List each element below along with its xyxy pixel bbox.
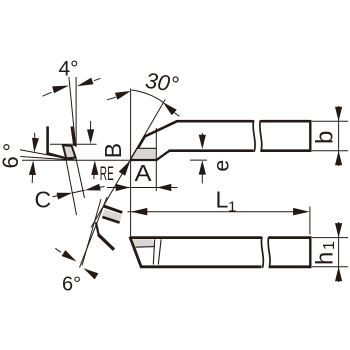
top view: shank bottom edge (left piece to break): [169, 149, 254, 152]
B up arrowhead: [91, 160, 98, 175]
b down arrowhead: [335, 107, 342, 122]
aux guide line 1: [80, 197, 108, 268]
aux guide line 2: [82, 199, 101, 266]
B down arrowhead: [87, 129, 94, 144]
front view: insert (gray, outlined): [63, 145, 76, 158]
bottom 6-deg left arrowhead: [62, 250, 77, 261]
L1 right extension line: [309, 207, 311, 235]
4-deg left arrowhead: [52, 86, 69, 94]
side view: left slanted edge: [130, 237, 141, 267]
top view: head-to-shank bottom chamfer: [156, 151, 169, 161]
30-deg arc right arrowhead: [163, 102, 177, 115]
C right tail dash: [99, 187, 105, 188]
aux detail: near-vertical bar: [96, 222, 99, 235]
30-deg dimension arc: [131, 90, 163, 102]
side view: break squiggle left: [261, 237, 263, 268]
B down arrow shaft: [90, 121, 92, 135]
front view: right tilted bar: [72, 126, 75, 145]
4-deg reference vertical line: [75, 77, 77, 147]
4-deg left tail dash: [43, 92, 52, 96]
top view: head bottom edge from tip: [130, 159, 157, 161]
e up arrow shaft: [201, 170, 203, 184]
C dim line between: [72, 190, 84, 193]
A dimension line: [107, 187, 178, 189]
top view: shank top edge (right piece): [261, 120, 311, 123]
top view: shank bottom edge (right piece): [261, 149, 311, 152]
b extension line bottom: [312, 150, 348, 152]
A extension line right (x=156.3): [155, 128, 157, 191]
C left arrowhead: [57, 193, 73, 200]
side view: right end edge: [309, 236, 311, 268]
e up arrowhead: [199, 160, 206, 175]
side view: insert boundary line A: [153, 239, 154, 264]
svg-text:6: 6: [0, 156, 23, 168]
30-deg slanted line through tip: [91, 99, 165, 227]
top view: carbide insert (gray): [132, 148, 156, 158]
svg-text:1: 1: [228, 199, 236, 216]
front view: bottom edge: [47, 153, 67, 159]
30-deg arc left arrowhead: [115, 91, 131, 100]
svg-text:e: e: [211, 160, 234, 172]
h1 extension line top: [312, 237, 348, 239]
b dim shaft: [338, 106, 340, 166]
e extension line: [190, 159, 207, 161]
bottom 6-deg right arrowhead: [83, 268, 98, 279]
6-deg up arrowhead: [29, 160, 36, 175]
svg-text:°: °: [0, 143, 24, 152]
L1 dimension line: [128, 211, 307, 213]
b up arrowhead: [335, 151, 342, 166]
C extension line L2 (short): [76, 159, 85, 199]
6-deg up arrow tail: [31, 175, 33, 184]
top view: break squiggle right: [260, 120, 262, 152]
h1 down arrowhead: [335, 223, 342, 238]
A right arrowhead: [157, 184, 172, 191]
4-deg slanted line: [69, 77, 76, 147]
side view: insert boundary line B: [158, 239, 161, 264]
svg-text:h: h: [312, 252, 339, 265]
aux detail: lower edge of sliver: [102, 217, 119, 223]
C right arrowhead: [85, 184, 101, 191]
h1 dim shaft: [338, 222, 340, 282]
middle slanted line (F2): [20, 157, 76, 161]
RE leader arrowhead at tip: [119, 160, 131, 176]
e down arrow shaft: [201, 133, 203, 140]
L1 right arrowhead: [293, 208, 310, 216]
bottom 6-deg left tail dash: [55, 248, 61, 252]
top view: cutting tip outline (nose, side edge, 30-deg chamfer, shank top edge to break): [131, 121, 254, 160]
front view: left vertical bar: [46, 126, 49, 153]
svg-text:6°: 6°: [62, 274, 81, 296]
e down arrowhead: [199, 135, 206, 150]
upper horizontal line y=144.2: [50, 143, 97, 145]
top view: break squiggle left: [253, 120, 255, 152]
svg-text:B: B: [100, 143, 126, 158]
aux detail: upper thick bar: [103, 206, 122, 213]
svg-text:4°: 4°: [59, 58, 79, 81]
L1 left arrowhead: [131, 208, 148, 216]
6-deg down arrowhead: [32, 138, 39, 153]
aux detail: lower thick bar: [98, 235, 114, 250]
30-deg arc left arrow tail dash: [107, 97, 116, 100]
side view: bottom edge (right piece): [269, 265, 310, 268]
30-deg arc right arrow tail dash: [174, 113, 179, 117]
side view: insert bottom thin line: [136, 246, 155, 249]
aux detail: gray sliver: [102, 209, 121, 222]
svg-text:b: b: [312, 131, 339, 144]
6-deg upper slanted line (F1): [20, 150, 77, 161]
top view: shank right end edge: [309, 120, 311, 152]
side view: insert (gray): [132, 239, 155, 247]
vertical extension line through tip (x=130.6): [130, 89, 132, 239]
B up arrow shaft: [93, 170, 95, 179]
top view: insert top edge line: [137, 147, 156, 149]
side view: bottom edge (left piece): [140, 265, 261, 268]
side view: top edge (left piece): [130, 236, 262, 239]
side view: break squiggle right: [268, 237, 270, 268]
horizontal reference line y=160.2: [22, 159, 129, 161]
4-deg right arrowhead: [77, 78, 94, 87]
6-deg down arrow tail: [34, 133, 36, 141]
svg-text:L: L: [216, 187, 229, 213]
svg-text:RE: RE: [100, 164, 114, 185]
svg-text:C: C: [35, 187, 52, 213]
b extension line top: [312, 120, 348, 122]
h1 extension line bottom: [312, 266, 348, 268]
h1 up arrowhead: [335, 267, 342, 282]
side view: top edge (right piece): [269, 236, 310, 239]
4-deg right tail dash: [94, 78, 101, 80]
C extension line L1 (long): [66, 159, 77, 216]
A left arrowhead: [116, 184, 131, 191]
svg-text:30°: 30°: [144, 68, 181, 97]
C left tail dash: [53, 196, 59, 197]
svg-text:A: A: [135, 160, 153, 186]
svg-text:1: 1: [321, 241, 338, 250]
